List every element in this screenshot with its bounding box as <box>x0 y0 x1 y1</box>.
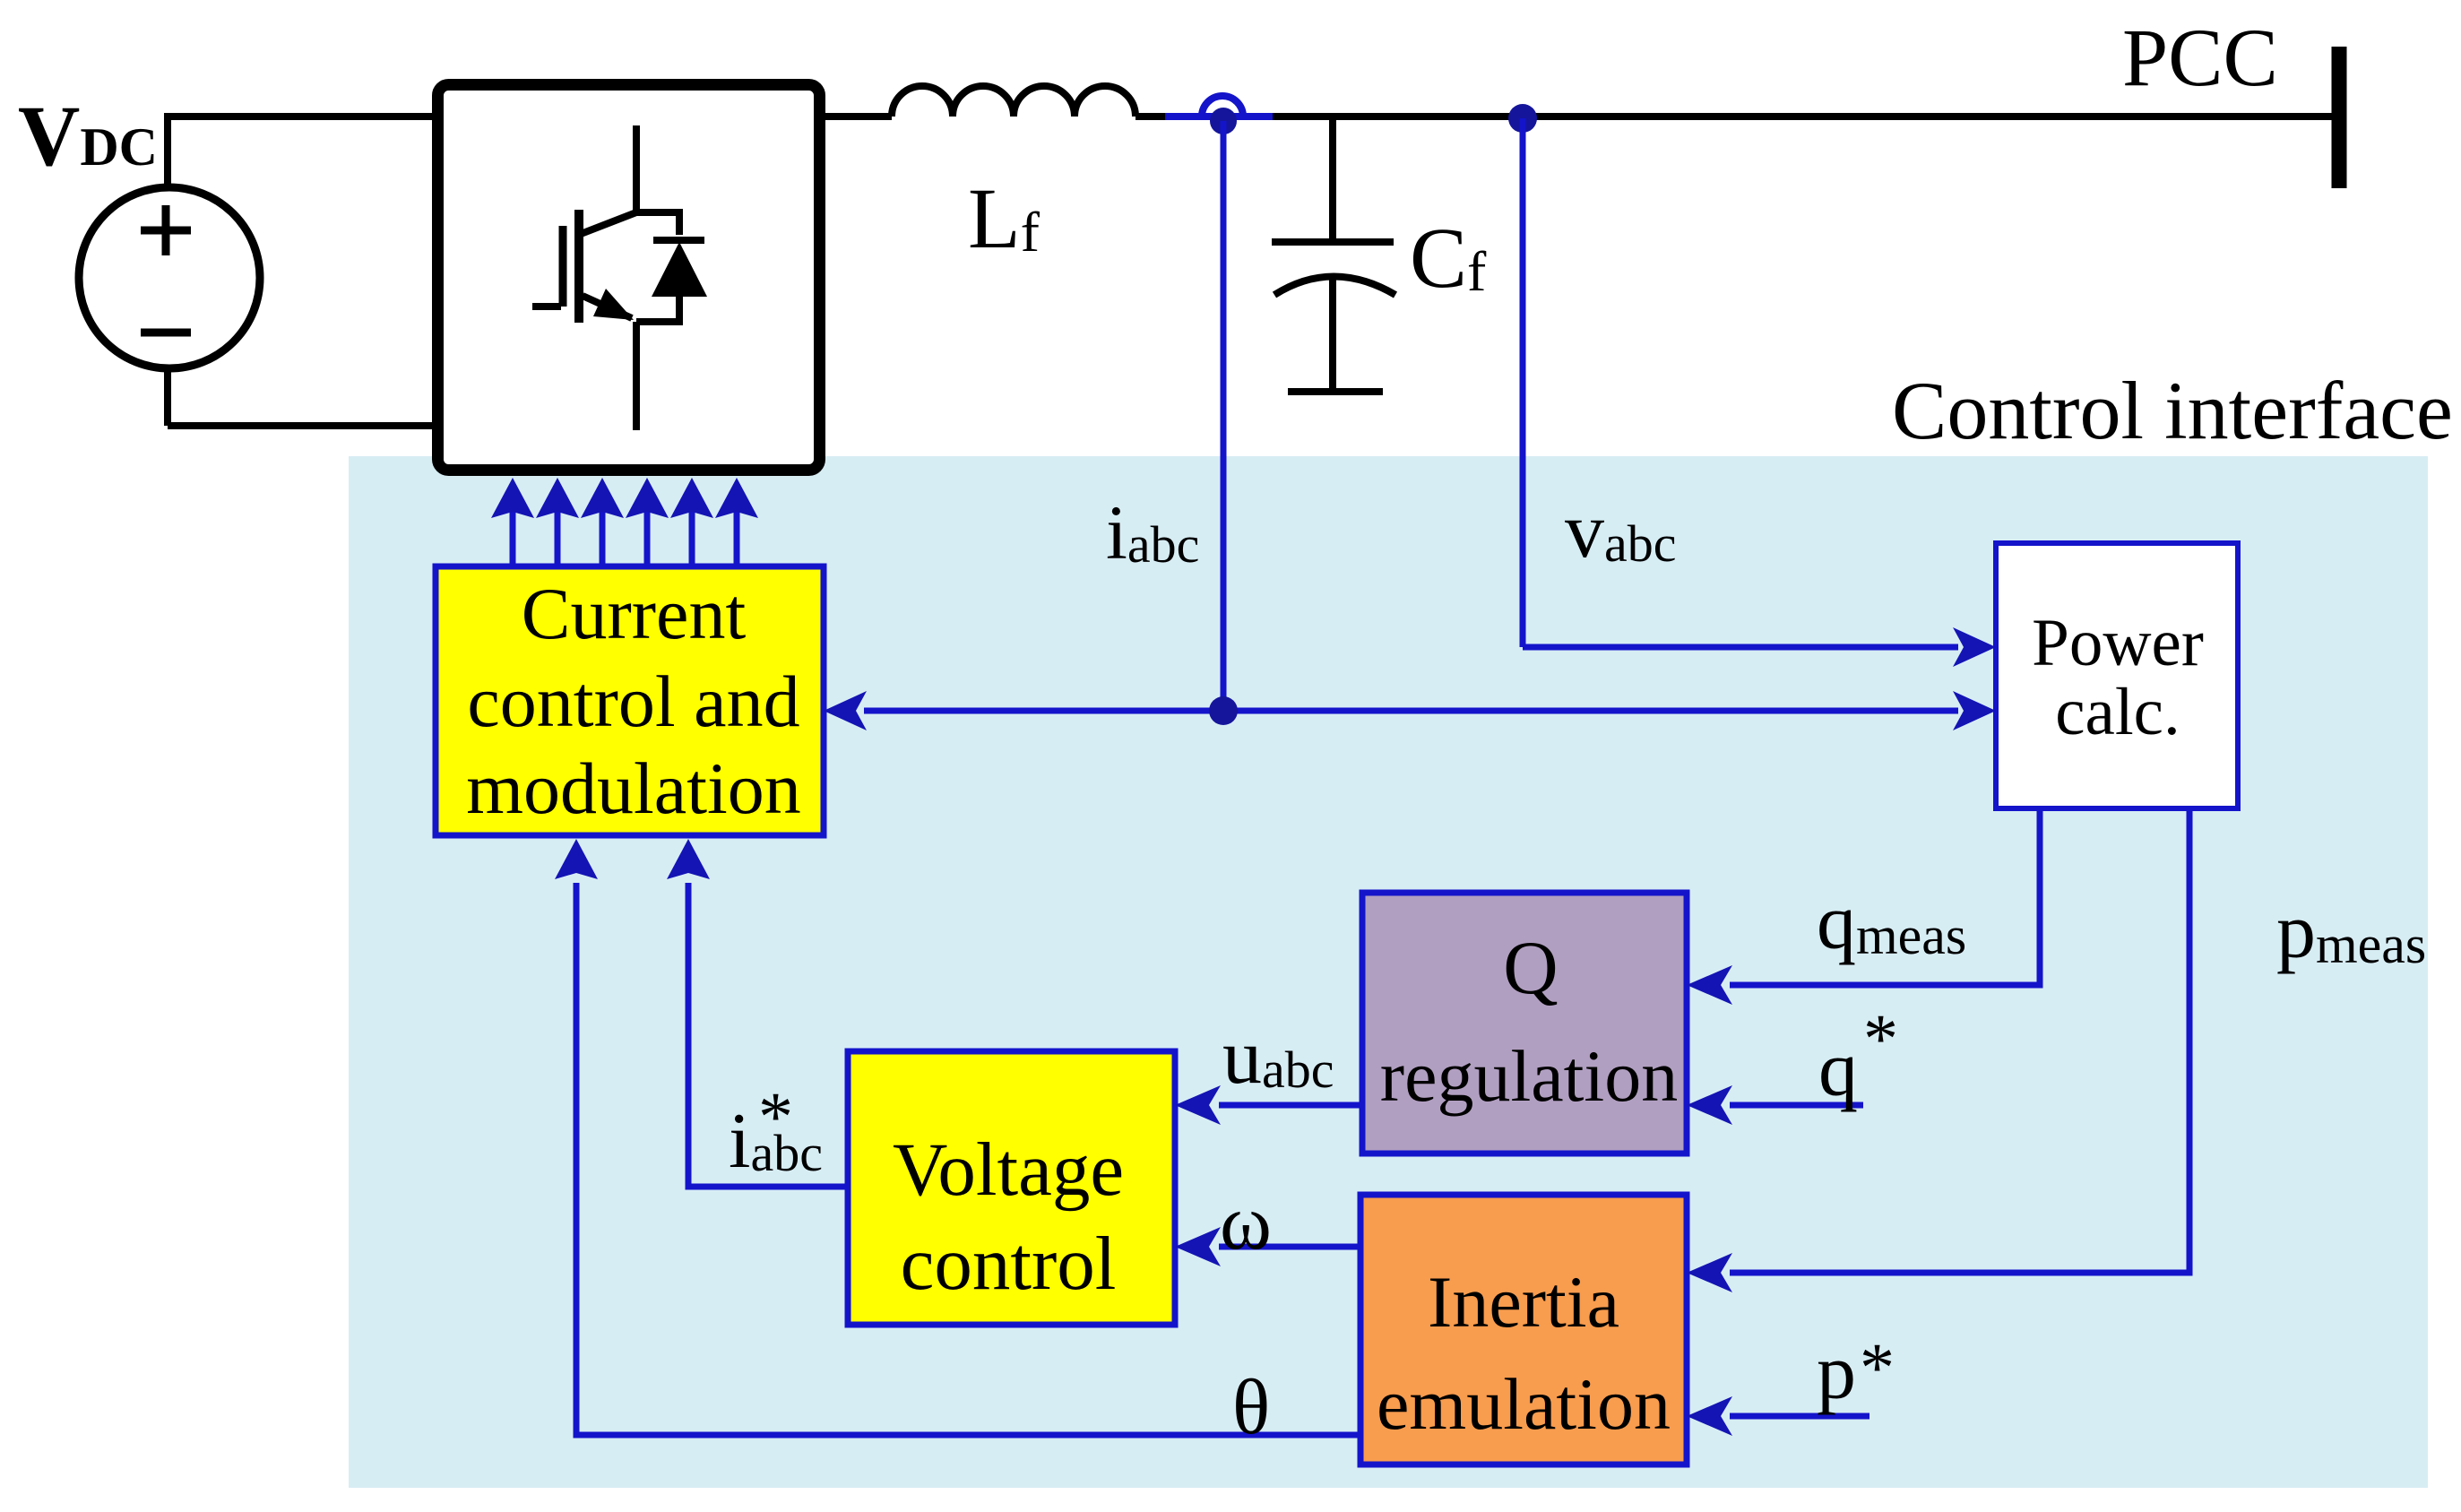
capacitor Cf <box>1272 117 1395 392</box>
svg-text:*: * <box>1863 999 1898 1077</box>
label Cf <box>1410 210 1487 306</box>
wire p* reference <box>1687 1396 1869 1436</box>
svg-text:control and: control and <box>467 661 799 742</box>
svg-text:θ: θ <box>1232 1364 1270 1451</box>
label VDC <box>18 88 158 184</box>
svg-text:Inertia: Inertia <box>1428 1261 1619 1343</box>
gate pulse arrows <box>491 478 758 568</box>
inductor Lf <box>892 86 1136 117</box>
svg-text:q: q <box>1818 1026 1858 1113</box>
dc voltage source VDC <box>79 187 260 368</box>
svg-text:Control interface: Control interface <box>1892 365 2453 456</box>
label q* <box>1818 999 1898 1113</box>
svg-text:Current: Current <box>522 573 747 654</box>
block voltage control <box>848 1051 1175 1325</box>
wire theta inertia to current control <box>555 839 1360 1435</box>
block inertia emulation <box>1360 1195 1687 1464</box>
wire q* reference <box>1687 1085 1863 1125</box>
node vabc <box>1508 104 1537 133</box>
svg-text:p: p <box>1817 1329 1856 1416</box>
PCC busbar <box>2332 47 2347 188</box>
wire qmeas <box>1687 808 2040 1005</box>
wire inductor to PCC <box>1136 113 2334 120</box>
wire VDC bottom <box>168 369 432 426</box>
label omega <box>1220 1179 1272 1266</box>
wire inverter to inductor <box>825 113 892 120</box>
wire omega inertia to voltage control <box>1175 1227 1360 1266</box>
label qmeas <box>1817 879 1966 966</box>
wire pmeas <box>1687 808 2189 1292</box>
wire uabc Q regulation to voltage control <box>1175 1085 1362 1125</box>
svg-text:PCC: PCC <box>2122 12 2278 103</box>
transistor IGBT with diode <box>532 125 707 430</box>
svg-text:Power: Power <box>2032 606 2204 680</box>
svg-text:Q: Q <box>1503 926 1558 1010</box>
label p* <box>1817 1328 1895 1416</box>
inverter box <box>438 85 820 471</box>
label i*abc <box>729 1077 823 1185</box>
label vabc <box>1565 488 1677 575</box>
label Control interface <box>1892 365 2453 456</box>
svg-text:ω: ω <box>1220 1179 1272 1266</box>
label pmeas <box>2276 888 2426 975</box>
wire vabc vertical <box>1520 118 1526 647</box>
svg-text:*: * <box>1860 1328 1895 1406</box>
svg-text:*: * <box>758 1077 793 1155</box>
label theta <box>1232 1364 1270 1451</box>
wire iabc horizontal <box>824 691 1996 730</box>
wire i*abc voltage control to current control <box>667 839 848 1187</box>
svg-text:regulation: regulation <box>1380 1035 1678 1117</box>
label uabc <box>1222 1014 1334 1101</box>
block current control and modulation <box>436 566 824 835</box>
wire iabc vertical <box>1221 121 1227 711</box>
svg-text:calc.: calc. <box>2055 675 2180 749</box>
control interface shaded region <box>349 456 2428 1488</box>
svg-text:emulation: emulation <box>1377 1363 1671 1445</box>
block Q regulation <box>1362 893 1687 1153</box>
label PCC <box>2122 12 2278 103</box>
block power calc <box>1996 543 2238 808</box>
node iabc tap with hop <box>1165 96 1273 134</box>
wire vabc to power calc <box>1523 627 1996 667</box>
label iabc <box>1106 489 1199 575</box>
label Lf <box>968 170 1041 266</box>
svg-text:modulation: modulation <box>466 747 801 829</box>
wire VDC top <box>168 113 432 187</box>
svg-text:control: control <box>901 1222 1117 1306</box>
svg-text:Voltage: Voltage <box>893 1128 1124 1212</box>
